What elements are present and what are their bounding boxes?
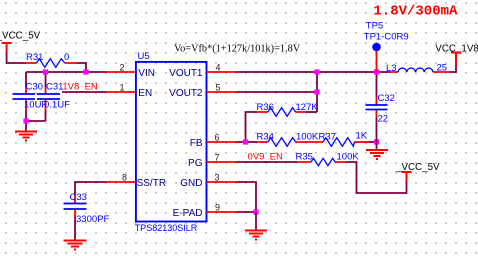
svg-text:0.1UF: 0.1UF: [44, 100, 70, 111]
wire FB row: [237, 141, 258, 143]
svg-text:VOUT2: VOUT2: [169, 88, 203, 99]
svg-text:3300PF: 3300PF: [76, 214, 109, 225]
resistor R37: [319, 131, 370, 147]
power port VCC_5V top-left: [0, 31, 41, 53]
svg-text:VOUT1: VOUT1: [169, 68, 203, 79]
wire R36 right to x317: [306, 111, 317, 113]
svg-text:R31: R31: [26, 52, 43, 63]
svg-text:8: 8: [122, 172, 127, 182]
svg-text:1.8V/300mA: 1.8V/300mA: [373, 4, 458, 20]
wire VIN row: [26, 71, 106, 73]
svg-text:1V8_EN: 1V8_EN: [62, 81, 98, 92]
svg-text:SS/TR: SS/TR: [137, 178, 166, 189]
svg-text:7: 7: [214, 152, 219, 162]
node junction TP5/L3/C32 on VOUT row: [374, 69, 379, 74]
test point TP5: [364, 21, 409, 73]
capacitor C33: [64, 192, 110, 240]
svg-text:GND: GND: [180, 178, 202, 189]
svg-text:100K: 100K: [337, 152, 360, 163]
svg-text:L3: L3: [386, 63, 397, 74]
node junction C31 top: [43, 69, 48, 74]
svg-text:E-PAD: E-PAD: [173, 208, 203, 219]
svg-text:PG: PG: [188, 158, 203, 169]
svg-text:R36: R36: [257, 102, 274, 113]
wire L3 right to VCC_1V8: [450, 66, 456, 72]
node junction VOUT2 row x317: [314, 89, 319, 94]
resistor R31: [26, 52, 77, 67]
svg-text:C32: C32: [378, 93, 395, 104]
op-amp U5 body TPS82130SILR: [135, 51, 207, 233]
svg-text:FB: FB: [190, 138, 203, 149]
pin 3 GND: [180, 172, 236, 189]
pin 7 PG: [188, 152, 236, 169]
svg-text:22: 22: [378, 114, 389, 125]
svg-text:R35: R35: [296, 152, 313, 163]
node junction R31 right on VIN row: [83, 69, 88, 74]
node junction VOUT1 row x317: [314, 69, 319, 74]
inductor L3: [386, 63, 450, 75]
pin 1 EN: [106, 82, 152, 99]
pin 4 VOUT1: [169, 62, 236, 79]
ground below C30/C31: [15, 132, 37, 141]
svg-text:3: 3: [214, 172, 219, 182]
svg-text:0V9_EN: 0V9_EN: [248, 152, 284, 163]
pin 2 VIN: [106, 62, 155, 79]
svg-text:C31: C31: [46, 82, 63, 93]
node junction FB: [243, 139, 248, 144]
svg-text:VIN: VIN: [138, 68, 155, 79]
capacitor C30: [13, 72, 48, 131]
svg-text:TP5: TP5: [366, 21, 383, 32]
svg-text:_VCC_5V: _VCC_5V: [0, 31, 41, 42]
wire VOUT1 row: [237, 71, 391, 73]
power port VCC_5V bottom-right: [395, 162, 440, 182]
pin 8 SS/TR: [106, 172, 166, 189]
wire GND pin to corner: [237, 182, 257, 212]
svg-text:100K: 100K: [296, 132, 319, 143]
node junction C30/C31 bottom: [23, 118, 28, 123]
wire PG row: [237, 161, 298, 163]
svg-text:R37: R37: [319, 132, 336, 143]
resistor R35: [296, 152, 360, 166]
node junction E-PAD/GND: [253, 209, 258, 214]
pin 5 VOUT2: [169, 82, 236, 99]
wire EN row: [62, 91, 106, 93]
svg-text:2: 2: [119, 62, 124, 72]
svg-text:0: 0: [64, 52, 69, 63]
svg-text:EN: EN: [138, 88, 152, 99]
resistor R36: [257, 102, 319, 116]
capacitor C31: [37, 72, 70, 121]
wire E-PAD row: [237, 211, 257, 213]
wire SS/TR to C33: [75, 182, 106, 196]
svg-text:9: 9: [215, 202, 220, 212]
svg-text:4: 4: [215, 62, 220, 72]
svg-text:TPS82130SILR: TPS82130SILR: [135, 223, 198, 233]
ground below C33: [64, 241, 87, 250]
resistor R34: [257, 132, 324, 147]
svg-text:Vo=Vfb*(1+127k/101k)=1.8V: Vo=Vfb*(1+127k/101k)=1.8V: [174, 44, 301, 55]
ground below E-PAD: [245, 212, 267, 240]
svg-text:25: 25: [437, 63, 448, 74]
pin 9 E-PAD: [173, 202, 237, 219]
svg-text:5: 5: [215, 82, 220, 92]
wire R36 left down to FB row: [246, 112, 258, 142]
wire R37 right to C32 bottom: [369, 141, 377, 143]
svg-text:C33: C33: [70, 192, 87, 203]
svg-text:TP1-C0R9: TP1-C0R9: [364, 32, 409, 43]
wire R31 right down to VIN row: [77, 63, 87, 72]
wire C31 bottom to C30 bottom: [26, 120, 46, 122]
svg-text:C30: C30: [26, 82, 43, 93]
svg-text:U5: U5: [138, 51, 150, 62]
ground below C32: [366, 142, 388, 159]
power port VCC_1V8: [435, 44, 478, 67]
node junction C32 bottom: [374, 139, 379, 144]
svg-text:1: 1: [119, 82, 124, 92]
svg-text:1K: 1K: [356, 131, 368, 142]
capacitor C32: [366, 72, 395, 142]
svg-text:6: 6: [214, 132, 219, 142]
wire VOUT2 row: [237, 91, 318, 93]
svg-text:R34: R34: [257, 132, 274, 143]
wire R35 right to VCC_5V: [346, 162, 407, 193]
pin 6 FB: [190, 132, 237, 149]
wire vertical tie VOUT1/VOUT2/R36: [316, 72, 318, 112]
wire VCC_5V to R31 left: [7, 53, 26, 63]
